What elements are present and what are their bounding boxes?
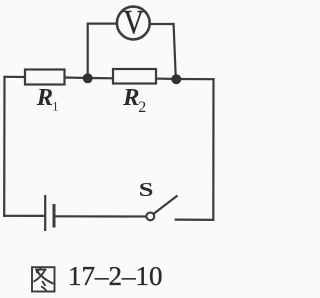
node B junction dot <box>171 74 181 84</box>
switch S label <box>139 179 154 201</box>
caption figure character 图 (drawn) <box>32 267 55 291</box>
resistor R2 <box>113 69 156 84</box>
voltmeter U1 circle <box>117 7 150 40</box>
voltmeter U1 label V <box>123 3 144 41</box>
wire node A to R2 <box>88 77 113 80</box>
svg-text:2: 2 <box>138 99 146 116</box>
battery BT1 long plate <box>44 195 46 231</box>
switch S lever <box>154 196 178 214</box>
battery BT1 short plate <box>53 204 56 228</box>
wire node B to top-right corner <box>177 78 214 80</box>
svg-text:R: R <box>36 84 53 111</box>
wire R2 to node B <box>156 77 177 80</box>
wire switch to bottom-right corner <box>176 219 214 221</box>
node A junction dot <box>83 73 93 83</box>
resistor R1 label <box>36 84 59 114</box>
caption text 17-2-10 <box>68 261 163 291</box>
svg-text:1: 1 <box>52 100 58 114</box>
svg-text:S: S <box>139 179 154 201</box>
resistor R2 label <box>122 84 146 116</box>
wire top-left segment <box>5 76 26 78</box>
resistor R1 <box>25 70 65 85</box>
wire R1 to node A <box>65 76 88 79</box>
wire battery to switch <box>55 215 147 217</box>
svg-text:17–2–10: 17–2–10 <box>68 261 163 291</box>
wire voltmeter right riser <box>151 24 176 79</box>
wire bottom-left to battery <box>4 215 44 217</box>
svg-text:R: R <box>122 84 139 111</box>
wire left vertical <box>3 77 6 216</box>
wire voltmeter left riser <box>88 24 116 78</box>
svg-text:V: V <box>123 3 144 41</box>
switch S pivot circle <box>146 213 154 221</box>
wire right vertical <box>212 79 214 220</box>
